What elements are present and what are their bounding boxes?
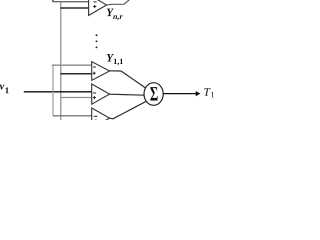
op-amp A3 (bottom, cropped) — [92, 108, 110, 128]
op-amp U-top (Y n,r), cropped at top edge — [89, 0, 107, 15]
label T1 (output) — [204, 88, 210, 96]
wire L4: op-amp A1 plus input line — [60, 73, 91, 75]
wire L2: top op-amp plus input line — [60, 7, 89, 9]
wire L1: top op-amp minus input line — [52, 1, 89, 3]
vertical ellipsis between rows — [96, 34, 98, 36]
wire L6: op-amp A2 plus input line — [60, 97, 91, 99]
wire: stub from row above into top amp minus line — [52, 0, 54, 2]
wire: output arrow to T1 — [163, 91, 200, 96]
label Y_{n,r} — [107, 9, 114, 17]
bus V2: vertical distribution line — [60, 2, 62, 120]
wire: top op-amp output going up to cropped summing node — [107, 0, 130, 5]
label Y_{1,1} — [107, 54, 114, 62]
wire L3: op-amp A1 minus input line — [52, 64, 92, 66]
summing node SIGMA — [144, 83, 163, 106]
wire: op-amp A1 output to summing node — [110, 71, 147, 89]
wire L7: op-amp A3 minus input line — [53, 115, 92, 117]
wire L5: v1 input line into op-amp A2 minus — [24, 91, 92, 93]
op-amp A1 (Y 1,1) — [92, 62, 110, 81]
wire: op-amp A3 output to summing node — [110, 101, 148, 119]
wire: op-amp A2 output to summing node — [110, 94, 145, 95]
op-amp A2 (middle) — [92, 84, 110, 104]
bus V1: vertical distribution line (light) — [52, 65, 54, 116]
label v1 (input) — [0, 85, 4, 90]
